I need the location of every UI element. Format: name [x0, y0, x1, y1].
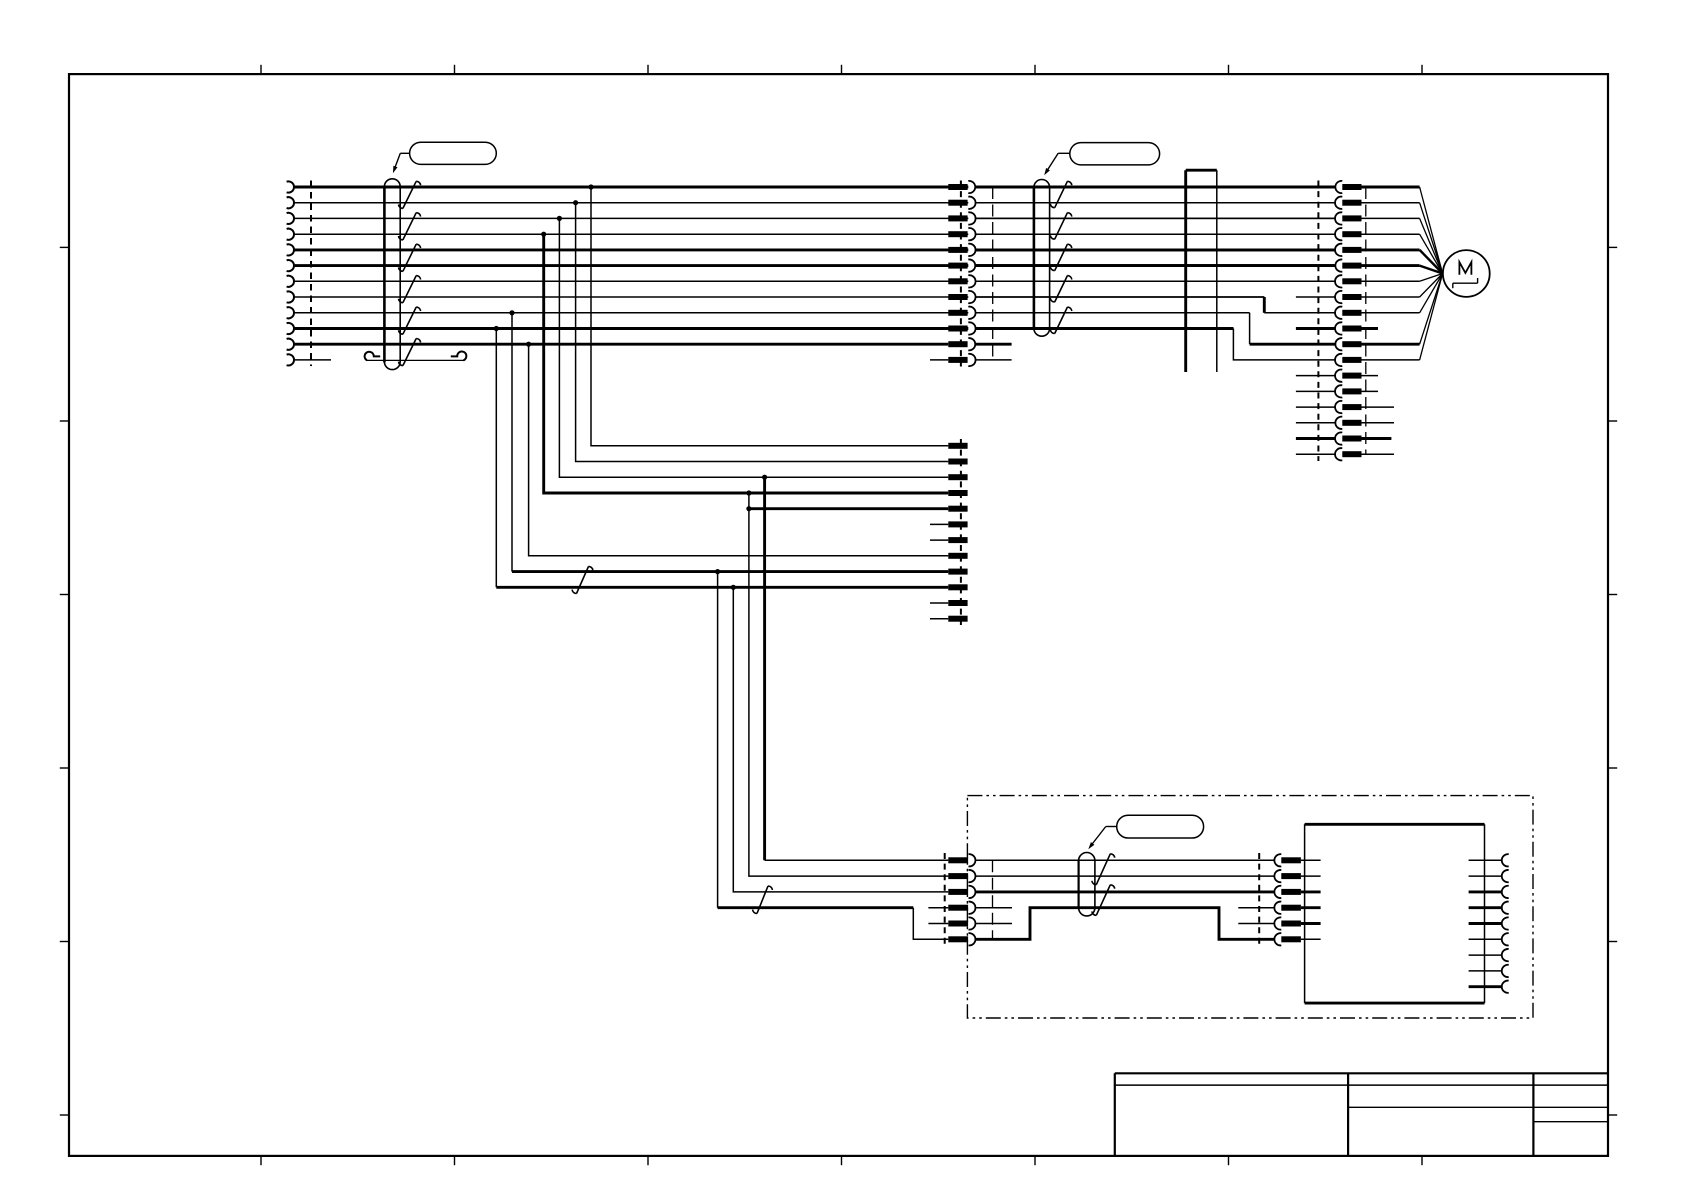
twisted-pair mark W2 pair 3 (rows 5-6)	[1050, 244, 1072, 270]
connector X1 pin 5 socket	[287, 244, 294, 255]
connector XR contact 5	[1335, 244, 1361, 256]
wire XR row 15 right stub	[1362, 406, 1395, 408]
connector XB contact 1 inner stub	[1301, 859, 1321, 861]
wire XR row 11 to motor	[1362, 274, 1443, 345]
module wire row 3	[976, 890, 1274, 893]
connector XR dashed body line	[1317, 181, 1319, 462]
terminal XT contact 2	[948, 459, 967, 465]
connector XR mating dashed line	[1365, 187, 1367, 454]
wire row 2 (X1 to right)	[295, 202, 1335, 204]
connector X1 pin 9 socket	[287, 307, 294, 318]
drop wire row 3 to lower row 3	[559, 218, 948, 477]
wire row 10 (X1 to right)	[295, 327, 1234, 330]
connector X1 pin 2 socket	[287, 197, 294, 208]
wire row 12 stub into XM	[930, 359, 948, 361]
feed wire lower rows 4-5 to module row 2	[749, 493, 948, 876]
terminal XT contact 9	[948, 569, 967, 575]
cable W1 label callout	[410, 142, 497, 164]
right connector row 15 left stub	[1296, 406, 1335, 408]
wire row 12 pin stub	[295, 359, 331, 361]
right connector row 8 left stub	[1296, 296, 1335, 298]
terminal XT contact 3	[948, 474, 967, 480]
connector XB contact 5	[1274, 917, 1301, 929]
twisted-pair mark W1 pair 1 (rows 1-2)	[399, 181, 421, 208]
connector XB contact 5 inner stub	[1301, 922, 1321, 925]
right connector row 14 left stub	[1296, 390, 1335, 392]
wire row 2 (XM to right connector)	[976, 202, 1335, 204]
connector XM dashed body line	[960, 181, 962, 367]
wire row 6 (X1 to right)	[295, 264, 1335, 267]
terminal XT contact 8	[948, 553, 967, 559]
connector XR contact 2	[1335, 197, 1361, 209]
drop wire row 10 to lower row 10	[496, 329, 948, 588]
border zone ticks top	[261, 65, 1422, 74]
right connector row 18 left stub	[1296, 453, 1335, 455]
unit A1 output pin 5	[1469, 917, 1509, 929]
border zone ticks bottom	[261, 1156, 1422, 1165]
terminal XT contact 1	[948, 443, 967, 449]
twisted-pair mark W2 pair 2 (rows 3-4)	[1050, 213, 1072, 240]
wire row 12 shield drain segment	[367, 359, 464, 361]
motor M1	[1443, 250, 1490, 297]
connector XM contact 6	[948, 259, 975, 271]
twisted-pair mark W1 pair 3 (rows 5-6)	[399, 244, 421, 271]
twisted-pair mark W2 pair 4 (rows 7-8)	[1050, 276, 1072, 302]
connector X1 pin 11 socket	[287, 339, 294, 350]
connector XR contact 8	[1335, 291, 1361, 303]
cable W2 label callout	[1070, 143, 1160, 165]
connector X1 pin 4 socket	[287, 229, 294, 240]
junction lower row 3 / drop	[762, 475, 767, 480]
connector XB dashed body line	[1258, 853, 1260, 948]
connector XR contact 6	[1335, 259, 1361, 271]
module enclosure boundary (chain line)	[967, 796, 1533, 1018]
wire XR row 7 to motor	[1362, 274, 1443, 282]
wire row 9 (XM to right connector)	[976, 312, 1250, 314]
connector XR contact 11	[1335, 338, 1361, 350]
connector XM contact 8	[948, 291, 975, 303]
cable W2 leader arrow	[1044, 153, 1070, 175]
drop wire row 11 to lower row 8	[529, 344, 949, 556]
unit A1 output pin 8	[1469, 965, 1509, 977]
module wire row 2	[976, 875, 1274, 877]
unit A1 output pin 1	[1469, 854, 1509, 866]
wire row 1 (X1 to right)	[295, 186, 1335, 189]
twisted-pair mark W3 pair 1	[1092, 854, 1115, 885]
border zone ticks right	[1608, 247, 1617, 1115]
module wire row 4 right stub	[1238, 907, 1274, 909]
connector XM contact 10	[948, 322, 975, 334]
module wire row 4 left stub	[976, 907, 1012, 909]
connector XB contact 4	[1274, 902, 1301, 914]
connector X1 pin 8 socket	[287, 291, 294, 302]
connector XR contact 17	[1335, 432, 1361, 444]
wire XR row 4 to motor	[1362, 234, 1443, 273]
connector XR contact 14	[1335, 385, 1361, 397]
connector XB contact 6 inner stub	[1301, 938, 1321, 940]
junction row 9 / drop	[509, 310, 514, 315]
connector XA mating dashed line	[992, 860, 994, 939]
twisted-pair mark W3 pair 2	[1092, 885, 1115, 916]
cable W3 label callout	[1117, 815, 1204, 838]
connector X1 pin 6 socket	[287, 260, 294, 271]
twisted-pair mark W1 pair 5 (rows 9-10)	[399, 307, 421, 334]
wire XR row 1 to motor	[1362, 187, 1443, 274]
connector XA contact 6	[948, 933, 975, 945]
connector XM contact 5	[948, 244, 975, 256]
terminal XT contact 11	[948, 600, 967, 606]
junction row 3 / drop	[557, 216, 562, 221]
unit A1 output pin 4	[1469, 902, 1509, 914]
terminal XT contact 10	[948, 584, 967, 590]
junction row 1 / drop	[588, 184, 593, 189]
right connector row 10 left stub	[1296, 327, 1335, 330]
connector XM contact 11	[948, 338, 975, 350]
terminal XT contact 6	[948, 521, 967, 527]
connector XR contact 13	[1335, 370, 1361, 382]
cable W1 leader arrow	[393, 153, 410, 173]
drop wire row 1 to lower row 1	[591, 187, 948, 446]
module wire row 1	[976, 859, 1274, 861]
wire XR row 3 to motor	[1362, 218, 1443, 273]
connector XM mating dashed line	[992, 187, 994, 360]
module wire row 5 left stub	[976, 923, 1012, 925]
terminal XT contact 12	[948, 616, 967, 622]
connector XB contact 1	[1274, 854, 1301, 866]
module wire row 6 step path	[976, 908, 1274, 940]
connector XM contact 7	[948, 275, 975, 287]
terminal block XT dashed body line	[960, 439, 962, 625]
wire row 11 (X1 to right)	[295, 343, 949, 346]
junction row 2 / drop	[573, 200, 578, 205]
connector XA dashed body line	[944, 853, 946, 948]
wire row 8 (XM to right connector)	[976, 296, 1265, 298]
wire XR row 10 right stub	[1362, 327, 1379, 330]
unit A1 output pin 6	[1469, 933, 1509, 945]
wire XR row 16 right stub	[1362, 422, 1395, 424]
junction lower row 4 / drop	[746, 490, 751, 495]
twisted-pair mark W1 pair 2 (rows 3-4)	[399, 213, 421, 240]
wire row 4 (X1 to right)	[295, 233, 1335, 235]
twisted-pair mark module feed rows 3/6	[753, 886, 773, 914]
connector XM contact 2	[948, 197, 975, 209]
wire XR row 5 to motor	[1362, 250, 1443, 274]
wire XR row 2 to motor	[1362, 203, 1443, 274]
wire row 11 stub right of XM	[976, 343, 1012, 346]
wire lower row 6 stub	[930, 523, 948, 525]
drop wire row 4 to lower row 4	[544, 234, 949, 493]
cable duct	[1186, 170, 1217, 372]
junction lower row 10 / drop	[731, 585, 736, 590]
terminal XT contact 4	[948, 490, 967, 496]
terminal XT contact 7	[948, 537, 967, 543]
terminal XT contact 5	[948, 506, 967, 512]
drop wire row 9 to lower row 9	[512, 313, 948, 572]
feed wire lower row 3 to module row 1	[765, 477, 949, 860]
connector XA contact 5	[948, 917, 975, 929]
connector XM contact 4	[948, 228, 975, 240]
junction row 11 / drop	[526, 342, 531, 347]
wire XR row 9 to motor	[1362, 274, 1443, 313]
twisted-pair mark lower rows 9-10	[572, 566, 593, 593]
wire row 12 stub right of XM	[976, 359, 1012, 361]
connector XR contact 12	[1335, 354, 1361, 366]
feed wire lower row 10 to module row 3	[733, 587, 948, 892]
cable shield W3	[1079, 853, 1095, 916]
right connector row 16 left stub	[1296, 422, 1335, 424]
connector XA contact 2	[948, 870, 975, 882]
wire row 6 (XM to right connector)	[976, 264, 1335, 267]
wire row 8 (X1 to right)	[295, 296, 1265, 298]
wire row 3 (X1 to right)	[295, 217, 1335, 219]
connector XR contact 4	[1335, 228, 1361, 240]
wire row 10 jog down to connector row 12	[1233, 329, 1335, 360]
drop wire row 2 to lower row 2	[576, 203, 949, 462]
connector XR contact 15	[1335, 401, 1361, 413]
right connector row 13 left stub	[1296, 375, 1335, 377]
connector XM contact 1	[948, 181, 975, 193]
connector XB contact 2 inner stub	[1301, 875, 1321, 877]
wire lower row 7 stub	[930, 539, 948, 541]
twisted-pair mark W1 pair 4 (rows 7-8)	[399, 276, 421, 303]
junction lower row 9 / drop	[715, 569, 720, 574]
cable shield W2	[1034, 180, 1050, 337]
connector XM contact 3	[948, 212, 975, 224]
wire XR row 17 right stub	[1362, 437, 1392, 440]
connector XR contact 1	[1335, 181, 1361, 193]
wire row 9 (X1 to right)	[295, 312, 1250, 314]
connector X1 pin 3 socket	[287, 213, 294, 224]
unit A1 output pin 9	[1469, 981, 1509, 993]
connector X1 pin 12 socket	[287, 354, 294, 365]
twisted-pair mark W2 pair 1 (rows 1-2)	[1050, 181, 1072, 207]
wire lower row 11 stub	[930, 602, 948, 604]
module wire row 5 right stub	[1238, 923, 1274, 925]
twisted-pair mark W2 pair 5 (rows 9-10)	[1050, 307, 1072, 333]
connector X1 pin 10 socket	[287, 323, 294, 334]
connector X1 dashed body line	[310, 181, 312, 367]
wire row 5 (XM to right connector)	[976, 248, 1335, 251]
junction lower row 5 / tap	[746, 506, 751, 511]
twisted-pair mark W1 pair 6 (rows 11-12)	[399, 338, 421, 365]
connector XR contact 16	[1335, 417, 1361, 429]
connector XR contact 7	[1335, 275, 1361, 287]
junction row 4 / drop	[541, 232, 546, 237]
connector X1 pin 7 socket	[287, 276, 294, 287]
wire row 1 (XM to right connector)	[976, 186, 1335, 189]
wire XR row 18 right stub	[1362, 453, 1395, 455]
cable W3 leader arrow	[1088, 827, 1116, 850]
module internal unit A1	[1305, 824, 1485, 1003]
connector XR contact 10	[1335, 322, 1361, 334]
wire XR row 14 right stub	[1362, 390, 1379, 392]
connector XM contact 9	[948, 307, 975, 319]
shield pigtail hook right	[451, 351, 467, 360]
connector XA contact 3	[948, 886, 975, 898]
wire XR row 13 right stub	[1362, 375, 1379, 377]
unit A1 output pin 7	[1469, 949, 1509, 961]
title block	[1115, 1073, 1608, 1156]
connector XB contact 6	[1274, 933, 1301, 945]
wire row 10 (XM to right connector)	[976, 327, 1234, 330]
shield pigtail hook left	[365, 352, 381, 361]
wire lower row 5 (from junction)	[749, 507, 948, 510]
right connector row 17 left stub	[1296, 437, 1335, 440]
connector XA contact 1	[948, 854, 975, 866]
connector XM contact 12	[948, 354, 975, 366]
module outside stub row 4	[928, 907, 948, 909]
wire XR row 6 to motor	[1362, 266, 1443, 274]
wire XR row 12 to motor	[1362, 274, 1443, 360]
unit A1 output pin 3	[1469, 886, 1509, 898]
wire lower row 12 stub	[930, 618, 948, 620]
connector XB contact 3	[1274, 886, 1301, 898]
wire row 3 (XM to right connector)	[976, 217, 1335, 219]
wire XR row 8 to motor	[1362, 274, 1443, 298]
wire row 4 (XM to right connector)	[976, 233, 1335, 235]
connector XR contact 9	[1335, 307, 1361, 319]
connector XB contact 3 inner stub	[1301, 890, 1321, 893]
cable shield W1	[384, 179, 400, 370]
connector X1 pin 1 socket	[287, 181, 294, 192]
connector XB contact 4 inner stub	[1301, 906, 1321, 909]
connector XR contact 18	[1335, 448, 1361, 460]
module outside stub row 5	[928, 923, 948, 925]
wire row 9 jog down to connector row 11	[1250, 313, 1335, 344]
wire row 5 (X1 to right)	[295, 248, 1335, 251]
connector XR contact 3	[1335, 212, 1361, 224]
junction row 10 / drop	[494, 326, 499, 331]
border zone ticks left	[60, 247, 69, 1115]
wire row 7 (XM to right connector)	[976, 280, 1335, 282]
connector XB contact 2	[1274, 870, 1301, 882]
wire row 8 jog down to connector row 9	[1264, 297, 1335, 313]
wire row 7 (X1 to right)	[295, 280, 1335, 282]
unit A1 output pin 2	[1469, 870, 1509, 882]
connector XA contact 4	[948, 902, 975, 914]
feed wire lower row 9 to module row 6 (step)	[718, 572, 949, 940]
